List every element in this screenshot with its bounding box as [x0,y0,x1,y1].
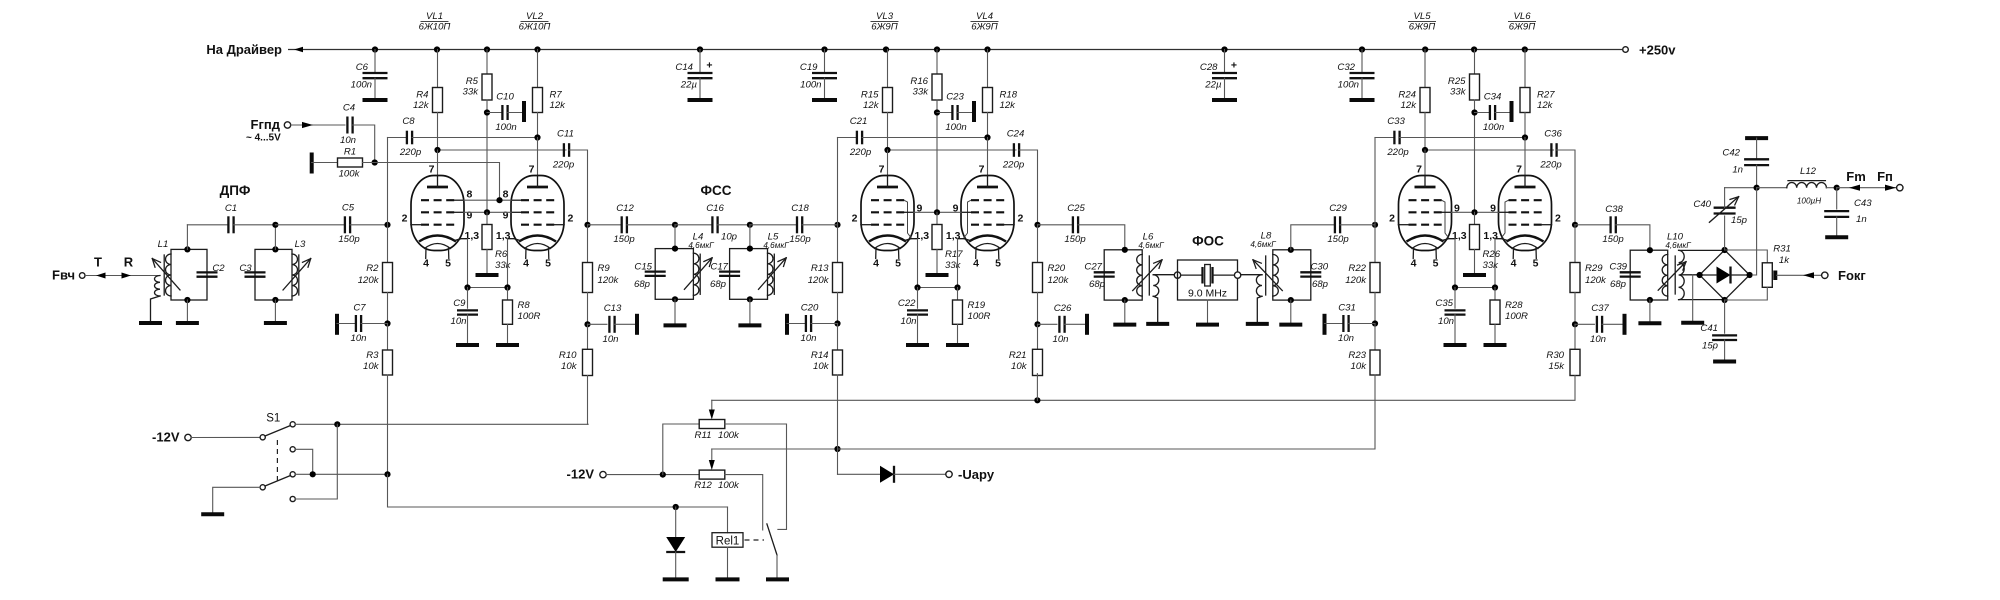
label T [94,255,102,270]
junction on +250v rail x=1425.2 [1422,46,1428,52]
tube VL4 6Ж9П [946,164,1024,270]
capacitor C9 10n [450,288,478,346]
ground L10 tank [1638,300,1661,323]
capacitor C17 68p labels [710,262,729,291]
junction on +250v rail x=886 [883,46,889,52]
wire cathode 2 [957,239,959,288]
svg-text:R5: R5 [466,76,479,87]
svg-text:C39: C39 [1609,262,1627,273]
svg-text:VL5: VL5 [1413,11,1431,22]
svg-text:4,6мкГ: 4,6мкГ [763,241,789,250]
capacitor C11 220p [438,129,588,225]
svg-text:C23: C23 [946,92,964,103]
junction on +250v rail x=1474.1 [1471,46,1477,52]
ground R28 [1484,343,1507,347]
svg-text:100R: 100R [968,311,991,322]
junction tank1 bottom [184,297,190,303]
svg-text:Fокг: Fокг [1838,268,1866,283]
terminal Fвч [52,268,85,283]
wire to FSS tank2 [749,225,751,249]
junction ring left [1697,272,1703,278]
ground Rel1 [716,577,740,581]
relay Rel1 coil [712,507,743,547]
svg-text:68p: 68p [1610,279,1627,290]
svg-text:68p: 68p [1312,279,1329,290]
wire bias line A [838,399,1038,401]
svg-text:4,6мкГ: 4,6мкГ [1665,241,1691,250]
svg-text:220p: 220p [1539,160,1562,171]
wire C33 to grid [1374,138,1376,225]
diode ring [1700,250,1750,300]
junction on +250v rail x=1224.5 [1221,46,1227,52]
junction R3/S1 [384,471,390,477]
svg-text:150p: 150p [789,234,811,245]
capacitor C40 15p variable [1693,188,1747,250]
svg-text:C33: C33 [1387,116,1405,127]
wire R10 to S1 row1 [587,376,590,425]
svg-text:R22: R22 [1348,263,1366,274]
svg-text:C10: C10 [496,92,514,103]
svg-text:2: 2 [402,213,408,225]
junction main line at C1/C5 [272,222,278,228]
resistor R7 12k [533,50,567,138]
svg-text:1,3: 1,3 [1483,230,1498,242]
tube VL6 6Ж9П [1483,164,1561,270]
wire R3 to S1 row3 [387,375,389,474]
wire Fвч to L1 with T/R arrows [86,273,161,279]
svg-text:C21: C21 [850,116,868,127]
wire -12V to S1 pole1 [191,436,260,438]
svg-text:C7: C7 [353,303,366,314]
wire bias line B right [838,375,1376,449]
svg-text:R13: R13 [811,263,829,274]
svg-text:Rel1: Rel1 [716,535,740,547]
junction on +250v rail x=537.5 [534,46,540,52]
junction L10 top [1647,247,1653,253]
junction FSS tank2 [747,222,753,228]
svg-text:220p: 220p [1002,160,1025,171]
svg-text:100k: 100k [339,169,361,180]
wire S1 contact1 line [295,423,588,425]
svg-text:R16: R16 [910,76,928,87]
capacitor C13 10n [588,303,638,345]
wire -12V to R12 [606,474,699,476]
junction R27 bottom [1522,134,1528,140]
svg-text:120k: 120k [598,275,620,286]
svg-text:L3: L3 [295,239,306,250]
wire cathode 2 [507,239,509,288]
svg-text:VL2: VL2 [526,11,544,22]
svg-text:5: 5 [995,258,1001,270]
svg-text:R15: R15 [861,90,879,101]
resistor R18 12k [983,50,1018,138]
capacitor C20 10n [787,303,838,345]
junction tank1 top [184,246,190,252]
junction on +250v rail x=937 [934,46,940,52]
svg-text:Fгпд: Fгпд [251,117,281,132]
wire R7 to VL2 pin7 [537,138,539,177]
svg-text:100R: 100R [518,311,541,322]
svg-text:VL6: VL6 [1513,11,1531,22]
capacitor C36 220p [1425,129,1575,225]
junction R14/line B [834,446,840,452]
ground relay contact [766,577,789,581]
junction C37 [1572,321,1578,327]
wire S1 pole2 to ground [213,487,260,514]
capacitor C42 1n [1722,138,1769,188]
resistor R5 33k [463,50,492,213]
capacitor C22 10n [898,288,928,346]
svg-text:C30: C30 [1311,262,1329,273]
junction grid VL1 [384,222,390,228]
svg-text:T: T [94,255,102,270]
tube VL2 6Ж10П [496,164,574,270]
svg-text:S1: S1 [266,413,280,425]
svg-text:7: 7 [529,164,535,176]
svg-text:C16: C16 [706,203,724,214]
switch S1 contact 4 wire [290,424,337,501]
svg-text:68p: 68p [710,279,727,290]
resistor R17 33k [932,212,963,275]
terminal Fокг [1822,268,1867,283]
potentiometer R12 100k [694,449,740,491]
svg-text:C42: C42 [1722,148,1740,159]
ground L10 secondary tap [1681,275,1704,323]
junction tank2 top [272,246,278,252]
capacitor C33 220p [1375,116,1525,158]
svg-text:R28: R28 [1505,300,1523,311]
svg-text:VL1: VL1 [426,11,443,22]
junction grid VL2/output [584,222,590,228]
label ФОС [1192,234,1224,249]
wire Fгпд to C4 [291,122,345,128]
capacitor C43 1n [1824,188,1872,238]
label VL5 [1408,11,1436,33]
svg-text:R4: R4 [416,90,428,101]
ground under L1 primary [139,321,162,325]
tube VL1 6Ж10П [402,164,480,270]
terminal +250v [1623,43,1677,58]
wire cathode link [918,287,958,289]
svg-text:C22: C22 [898,298,916,309]
svg-text:Fвч: Fвч [52,268,75,283]
svg-text:R30: R30 [1546,350,1564,361]
junction on +250v rail x=700 [697,46,703,52]
svg-text:R31: R31 [1773,244,1791,255]
junction c2/c3 [310,471,316,477]
svg-text:6Ж10П: 6Ж10П [419,22,451,33]
dashed link Rel1 [745,539,765,541]
ground C9 [456,343,479,347]
wire R21 to line A [1036,374,1038,401]
junction L5 bottom [747,296,753,302]
ground VD1 [663,577,689,581]
ground L8 tank [1279,300,1302,325]
wire L12 to Fm/Fп terminal [1837,185,1897,191]
wire cathode link [1455,287,1495,289]
junction cathode 1 [914,284,920,290]
svg-text:33k: 33k [945,260,962,271]
svg-text:6Ж9П: 6Ж9П [871,22,897,33]
resistor R14 10k [811,324,843,376]
transformer primary of L1 [151,276,161,324]
junction L12/C43 [1834,185,1840,191]
wire cathode 1 [917,239,919,288]
resistor R25 33k [1448,50,1480,213]
wire +250v supply rail [288,47,1622,53]
junction cathode 2 [504,284,510,290]
svg-text:4,6мкГ: 4,6мкГ [1250,240,1276,249]
junction L8 bottom [1288,297,1294,303]
svg-text:6Ж9П: 6Ж9П [1509,22,1535,33]
svg-text:+: + [1231,60,1237,72]
svg-text:100k: 100k [718,480,740,491]
capacitor C21 220p [838,116,988,158]
svg-text:150p: 150p [1602,234,1624,245]
svg-text:C26: C26 [1054,303,1072,314]
label На Драйвер [206,42,282,57]
junction on +250v rail x=437 [434,46,440,52]
svg-text:5: 5 [545,258,551,270]
capacitor C30 68p [1300,262,1328,291]
junction L4 bottom [672,296,678,302]
svg-text:10p: 10p [721,232,738,243]
wire diode to -Uapy [894,473,946,475]
wire R11 to relay contact B [725,424,787,529]
svg-text:33k: 33k [1483,260,1500,271]
svg-text:6Ж9П: 6Ж9П [1409,22,1435,33]
capacitor C5 150p [275,203,387,246]
svg-text:33k: 33k [495,260,512,271]
capacitor C26 10n [1038,303,1088,345]
svg-text:R26: R26 [1483,249,1501,260]
inductor L10 tank [1630,232,1691,301]
svg-text:10n: 10n [350,333,366,344]
svg-text:33k: 33k [913,87,930,98]
junction R25/C34 [1471,109,1477,115]
svg-text:R10: R10 [559,350,577,361]
junction grid VL6/output [1572,222,1578,228]
coupling winding of L6 [1153,275,1174,324]
svg-text:Fп: Fп [1877,169,1893,184]
diode VD1 [666,507,685,579]
terminal -12V right [567,467,607,482]
label ДПФ [220,183,251,198]
label R [124,255,134,270]
junction L10 bottom [1647,297,1653,303]
ground R6 [476,273,499,277]
capacitor C7 10n [337,303,388,345]
svg-text:100n: 100n [945,122,966,133]
svg-text:10n: 10n [1438,316,1454,327]
svg-text:1,3: 1,3 [1452,230,1467,242]
junction cathode 2 [1492,284,1498,290]
svg-text:R29: R29 [1585,263,1603,274]
ground L4 tank [664,299,687,325]
junction L6 top [1122,247,1128,253]
wire cathode 2 [1494,239,1496,288]
label VL3 [871,11,899,33]
capacitor C35 10n [1435,288,1465,346]
svg-text:2: 2 [852,213,858,225]
svg-text:6Ж9П: 6Ж9П [971,22,997,33]
terminal -12V left [152,430,191,445]
svg-text:2: 2 [1555,213,1561,225]
inductor L6 tank [1104,232,1164,301]
resistor R1 100k [338,147,363,180]
junction R7 bottom [534,134,540,140]
svg-text:100n: 100n [351,80,372,91]
junction R16/C23 [934,109,940,115]
junction on +250v rail x=375 [372,46,378,52]
svg-text:C12: C12 [616,203,634,214]
resistor R30 10k [1546,324,1580,375]
svg-text:12k: 12k [1000,100,1017,111]
resistor R26 33k [1470,212,1501,275]
tube VL3 6Ж9П [852,164,930,270]
svg-text:C38: C38 [1605,204,1623,215]
switch S1 pole 1 [260,422,295,440]
inductor L8 tank [1250,231,1310,301]
ground R17 [926,273,949,277]
switch S1 pole 2 [260,476,290,490]
relay contact blade [767,524,777,580]
resistor R3 10k [363,324,392,376]
resistor R4 12k [413,50,442,151]
terminal Fm/Fп [1897,185,1903,191]
label VL1 [419,11,451,33]
svg-text:10k: 10k [1011,361,1028,372]
junction L5 top [747,246,753,252]
wire tank1 to main line [186,225,188,250]
svg-text:150p: 150p [1327,234,1349,245]
resistor R16 33k [910,50,942,213]
svg-text:10k: 10k [813,361,830,372]
capacitor C8 220p [388,116,538,158]
svg-text:12k: 12k [863,100,880,111]
svg-text:8: 8 [503,189,509,201]
svg-text:5: 5 [1433,258,1439,270]
switch S1 contact 3 wire [290,472,387,477]
svg-text:C35: C35 [1435,298,1453,309]
capacitor C41 15p [1700,300,1737,362]
svg-text:+250v: +250v [1639,43,1676,58]
svg-text:1,3: 1,3 [465,230,480,242]
junction ring bottom [1722,297,1728,303]
svg-text:2: 2 [568,213,574,225]
resistor R19 100R [953,288,991,346]
resistor R31 1k [1725,244,1791,301]
svg-text:C36: C36 [1544,129,1562,140]
junction C7 [384,320,390,326]
junction ring top [1722,247,1728,253]
junction on +250v rail x=824.5 [821,46,827,52]
resistor R22 120k [1345,225,1380,324]
wire R18 to VL4 pin7 [987,138,989,177]
svg-text:10n: 10n [1052,334,1068,345]
label Fп [1877,169,1893,184]
svg-text:R27: R27 [1537,90,1555,101]
svg-text:10n: 10n [800,333,816,344]
junction R21/line A [1034,397,1040,403]
svg-text:1n: 1n [1856,214,1867,225]
svg-text:VL3: VL3 [876,11,894,22]
ground C22 [906,343,929,347]
resistor R24 12k [1398,50,1430,151]
svg-text:6Ж10П: 6Ж10П [519,22,551,33]
capacitor C15 68p labels [634,262,653,291]
resistor R27 12k [1520,50,1555,138]
wire R12 to relay contact A [725,475,763,530]
svg-text:150p: 150p [1064,234,1086,245]
svg-text:C40: C40 [1693,199,1711,210]
junction pin9 node [1471,209,1477,215]
svg-text:R20: R20 [1048,263,1066,274]
svg-text:Fm: Fm [1846,169,1866,184]
svg-text:4: 4 [873,258,879,270]
svg-text:220p: 220p [399,147,422,158]
resistor R10 10k [559,324,593,375]
svg-text:R8: R8 [518,300,531,311]
capacitor C24 220p [888,129,1038,225]
ground C35 [1444,343,1467,347]
svg-text:L12: L12 [1800,166,1817,177]
wire pin9 link [464,211,511,213]
svg-text:120k: 120k [1585,275,1607,286]
wire bias line B [712,448,838,450]
coupling winding of L8 [1241,275,1262,324]
svg-text:15p: 15p [1702,341,1719,352]
svg-text:15k: 15k [1549,361,1566,372]
junction L6 bottom [1122,297,1128,303]
capacitor C6 100n rail bypass [351,50,388,101]
svg-text:C3: C3 [239,263,252,274]
ground L6 tank [1113,300,1136,325]
svg-text:C18: C18 [791,203,809,214]
svg-text:4: 4 [523,258,529,270]
wire C40 to C42 node [1725,187,1757,189]
svg-text:12k: 12k [1537,100,1554,111]
junction R1/C4 [372,159,378,165]
junction L4 top [672,246,678,252]
svg-text:R18: R18 [1000,90,1018,101]
label ФСС [700,183,731,198]
junction grid VL4/output [1034,222,1040,228]
svg-text:ФСС: ФСС [700,183,731,198]
wire carrier injection [1752,188,1756,275]
svg-text:4: 4 [973,258,979,270]
junction R15/C24 [884,147,890,153]
ground S1 [201,512,224,516]
ground crystal box [1196,300,1219,325]
svg-text:220p: 220p [849,147,872,158]
svg-text:R19: R19 [968,300,986,311]
capacitor C39 68p [1609,262,1640,291]
wire cathode 1 [1454,239,1456,288]
svg-text:C25: C25 [1067,203,1085,214]
svg-text:-Uapy: -Uapy [958,467,995,482]
svg-text:10n: 10n [1590,334,1606,345]
svg-text:R1: R1 [344,147,356,158]
svg-text:C8: C8 [402,116,415,127]
svg-text:10n: 10n [340,135,356,146]
svg-text:2: 2 [1389,213,1395,225]
terminal Fгпд [246,117,291,144]
svg-text:1,3: 1,3 [915,230,930,242]
svg-text:C28: C28 [1200,62,1218,73]
svg-text:2: 2 [1018,213,1024,225]
svg-text:C17: C17 [710,262,728,273]
